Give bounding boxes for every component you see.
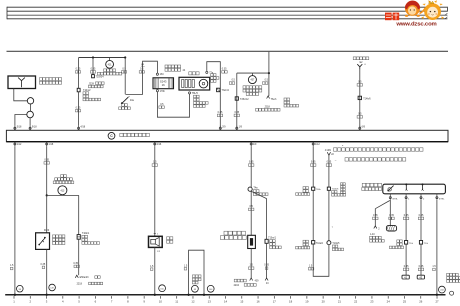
arrow to airbag loom bbox=[250, 278, 253, 281]
svg-text:www.dzsc.com: www.dzsc.com bbox=[395, 22, 436, 28]
svg-text:26: 26 bbox=[419, 300, 423, 304]
text right of radio bbox=[211, 74, 216, 77]
svg-text:T10s/5: T10s/5 bbox=[332, 243, 340, 245]
ground bus junction dots bbox=[14, 294, 16, 296]
svg-text:0.35: 0.35 bbox=[234, 111, 239, 114]
radio unit box bbox=[179, 77, 210, 90]
connector T14b/14 text left bbox=[303, 187, 308, 190]
terminal box 43 right bbox=[417, 275, 424, 279]
svg-text:2218: 2218 bbox=[77, 283, 83, 286]
svg-text:6/T8L: 6/T8L bbox=[439, 198, 445, 200]
svg-text:11: 11 bbox=[175, 300, 178, 304]
svg-text:T8L/5: T8L/5 bbox=[192, 92, 199, 95]
svg-text:20: 20 bbox=[322, 300, 326, 304]
svg-text:T14h/6: T14h/6 bbox=[363, 97, 371, 100]
hood switch label text bbox=[53, 235, 65, 238]
watermark red characters bbox=[385, 13, 399, 21]
door handle switch label bbox=[362, 183, 381, 187]
airbag connector box bbox=[248, 235, 256, 248]
wire col328 mid bbox=[328, 190, 330, 241]
connector T10s/5 bbox=[327, 241, 331, 245]
pin 2/16 below unit bbox=[154, 142, 156, 147]
wire antenna left lead bbox=[14, 89, 27, 101]
ground strap text bbox=[192, 275, 201, 278]
svg-text:E50a/23: E50a/23 bbox=[80, 276, 90, 279]
svg-text:0.35: 0.35 bbox=[373, 214, 378, 217]
svg-text:0.35: 0.35 bbox=[218, 111, 223, 114]
pin 1/12 below unit bbox=[14, 142, 16, 147]
ground strap bridge bbox=[189, 250, 204, 295]
alarm horn H12 box bbox=[149, 236, 163, 247]
antenna unit R47 box bbox=[8, 76, 36, 89]
circled C designator bbox=[108, 132, 115, 139]
horn pin 1 bbox=[154, 232, 156, 234]
watermark mascot 2 bbox=[421, 0, 444, 20]
svg-text:T10k/1: T10k/1 bbox=[82, 232, 90, 235]
svg-text:0.35: 0.35 bbox=[404, 214, 409, 217]
svg-text:13: 13 bbox=[208, 300, 212, 304]
antenna unit label text bbox=[40, 78, 62, 81]
arrow to instrument cluster bbox=[267, 96, 270, 99]
connection circle E413 bbox=[58, 186, 67, 195]
connector T10i/34 bbox=[92, 75, 95, 78]
svg-text:T32c/4: T32c/4 bbox=[222, 89, 230, 92]
separator line bbox=[7, 50, 449, 52]
svg-text:15: 15 bbox=[240, 300, 244, 304]
wire col155 upper bbox=[154, 146, 156, 236]
svg-text:J139: J139 bbox=[325, 148, 332, 152]
svg-text:0.35: 0.35 bbox=[419, 265, 424, 268]
svg-text:0.35: 0.35 bbox=[404, 265, 409, 268]
wire col78 lower to pin 4/18 bbox=[78, 92, 80, 126]
pin 6/9 above unit bbox=[359, 126, 361, 131]
svg-text:1/12: 1/12 bbox=[17, 143, 22, 146]
wire col46 upper bbox=[46, 146, 48, 195]
ground circle 150 bbox=[159, 285, 166, 292]
svg-text:9/18: 9/18 bbox=[32, 126, 37, 129]
wire col406 lower bbox=[405, 244, 407, 275]
radio bottom pin T8L/5 bbox=[188, 92, 190, 94]
svg-text:2204: 2204 bbox=[234, 284, 240, 287]
pin 9/18 above unit bbox=[29, 126, 31, 131]
ground circle 244 bbox=[439, 286, 446, 293]
antenna symbol bbox=[21, 81, 23, 88]
alarm warning lamp label bbox=[353, 57, 369, 60]
connection circle 2 bbox=[27, 111, 34, 118]
svg-text:14: 14 bbox=[224, 300, 228, 304]
connector T32c/4 bbox=[217, 88, 220, 92]
wire col269 to J218 bbox=[268, 73, 270, 96]
watermark mascot 1 bbox=[405, 1, 420, 17]
ground connection text right bbox=[447, 273, 459, 276]
svg-text:1-40: 1-40 bbox=[370, 234, 375, 236]
wire col313 upper bbox=[312, 146, 314, 187]
power bus bar 30 bbox=[7, 6, 447, 8]
hazard switch circle 437 bbox=[251, 73, 253, 76]
ground circle 146 bbox=[207, 285, 214, 292]
junction dot rail-431 bbox=[92, 56, 94, 58]
wire col46 below switch bbox=[46, 249, 48, 294]
connection circle E413 text bbox=[61, 175, 67, 178]
arrow col375 end bbox=[374, 226, 377, 229]
wire riser to separator bbox=[268, 52, 270, 73]
wire col421 lower bbox=[420, 244, 422, 275]
top rail node B bbox=[237, 72, 269, 74]
wire col251 upper bbox=[250, 146, 252, 187]
connector T10m/1 bbox=[265, 239, 268, 243]
svg-text:J218: J218 bbox=[264, 105, 270, 108]
svg-text:0.35: 0.35 bbox=[73, 262, 78, 265]
connector T14b/5 bbox=[327, 187, 330, 190]
connection circle 431 bbox=[109, 58, 111, 61]
switch contact N2 bbox=[422, 183, 424, 185]
fuse S243 top pin 163 bbox=[156, 73, 158, 75]
svg-text:0.35: 0.35 bbox=[419, 214, 424, 217]
wire col375 bbox=[374, 209, 376, 226]
wire col266 bbox=[266, 199, 268, 240]
junction dot col46 branch bbox=[46, 194, 48, 196]
svg-text:24: 24 bbox=[387, 300, 391, 304]
svg-text:T14b: T14b bbox=[316, 189, 322, 191]
wire col251 lower bbox=[250, 249, 252, 278]
pin 4/9 below unit bbox=[250, 142, 252, 147]
power bus bar X bbox=[7, 14, 447, 16]
ignition switch contact bbox=[126, 94, 143, 96]
fuse S243 box bbox=[153, 78, 174, 89]
svg-text:10: 10 bbox=[159, 300, 163, 304]
wire fuse to radio bbox=[157, 92, 189, 117]
pin 2/9 above unit bbox=[219, 126, 221, 131]
arrow to E50a/23 bbox=[75, 275, 78, 278]
pin 4/18 above unit bbox=[78, 126, 80, 131]
wire radio riser to col220 bbox=[207, 62, 221, 128]
svg-text:T25c/12: T25c/12 bbox=[240, 98, 249, 101]
watermark swoosh bbox=[420, 8, 426, 14]
svg-text:17: 17 bbox=[273, 300, 277, 304]
svg-text:0.35: 0.35 bbox=[264, 264, 269, 267]
wire col421 bbox=[420, 200, 422, 241]
svg-text:22: 22 bbox=[354, 300, 358, 304]
wire diagonal pin1 to col375 bbox=[375, 201, 390, 209]
radio pin text block bbox=[194, 95, 200, 98]
svg-text:0.35: 0.35 bbox=[44, 158, 49, 161]
svg-text:T10i: T10i bbox=[409, 243, 414, 245]
power bus bar 31 bbox=[7, 18, 447, 20]
wishbone Y22 on col328 bbox=[327, 152, 329, 155]
svg-text:2/16: 2/16 bbox=[157, 143, 162, 146]
wire between connection circles bbox=[30, 104, 32, 111]
connection circle 1 bbox=[27, 98, 33, 104]
svg-text:1/18: 1/18 bbox=[49, 143, 54, 146]
svg-text:0.35: 0.35 bbox=[76, 106, 81, 109]
pin 5/18 above unit bbox=[14, 126, 16, 131]
hood alarm switch box bbox=[36, 233, 50, 250]
svg-text:18: 18 bbox=[289, 300, 293, 304]
alarm horn label bbox=[167, 237, 173, 240]
wire col406 bbox=[405, 200, 407, 241]
ground circle 98 bbox=[17, 285, 24, 292]
airbag harness text bbox=[224, 231, 245, 235]
control unit label bbox=[120, 133, 150, 136]
switch box pins bbox=[389, 194, 391, 200]
pin 1/9 above unit bbox=[236, 126, 238, 131]
terminal 15a tick bbox=[141, 63, 144, 65]
fuse S243 bottom pin 170b bbox=[156, 90, 158, 92]
airbag loom text bbox=[234, 279, 246, 282]
ground circle 149 bbox=[49, 284, 56, 291]
svg-text:T10n/2: T10n/2 bbox=[83, 89, 91, 92]
connector T4a bbox=[248, 187, 252, 191]
connector T10k/1 bbox=[77, 235, 80, 240]
svg-text:21: 21 bbox=[338, 300, 342, 304]
alarm lamp symbol bbox=[359, 67, 361, 70]
connector T10i/26 bbox=[405, 241, 408, 245]
wire split diagonal to col266 bbox=[251, 191, 267, 199]
switch contact N1 bbox=[405, 183, 407, 185]
svg-text:25: 25 bbox=[403, 300, 407, 304]
svg-text:4/18: 4/18 bbox=[80, 126, 85, 129]
svg-text:0.35: 0.35 bbox=[311, 161, 316, 164]
door handle switch F133 box bbox=[383, 184, 446, 194]
terminal box 43 left bbox=[402, 275, 409, 279]
ground bus bar bbox=[5, 294, 445, 296]
connector T14h/6 bbox=[358, 96, 361, 99]
switch symbol inside bbox=[387, 190, 389, 192]
wire circle2 to pin 5/18 bbox=[15, 115, 27, 126]
svg-text:5/18: 5/18 bbox=[17, 126, 22, 129]
door handle switch text left small bbox=[341, 183, 346, 185]
svg-text:F120: F120 bbox=[44, 230, 50, 232]
svg-text:170b: 170b bbox=[160, 91, 166, 93]
ignition switch label bbox=[122, 104, 128, 107]
radio label bbox=[189, 72, 199, 75]
svg-text:23: 23 bbox=[370, 300, 374, 304]
pin 4/12 below unit bbox=[312, 142, 314, 147]
track scale ticks and numbers bbox=[13, 296, 439, 304]
svg-text:T4a: T4a bbox=[253, 187, 258, 190]
label connection 30a bbox=[104, 69, 116, 72]
radio top pin 77a bbox=[206, 71, 208, 73]
ground circle 43 bbox=[192, 285, 199, 292]
svg-text:T6c/1: T6c/1 bbox=[271, 98, 278, 101]
instrument cluster connector text bbox=[284, 98, 290, 101]
wire col46 to hood switch bbox=[46, 195, 48, 232]
wire col437 to ground bbox=[436, 200, 438, 295]
wire col358 upper bbox=[359, 70, 361, 128]
wire col78 lower section bbox=[78, 195, 80, 234]
connector T10a/2 bbox=[312, 241, 315, 244]
connector text left of T10i/26 bbox=[397, 240, 402, 243]
bus bar left bracket bbox=[6, 7, 8, 20]
svg-text:T10m/1: T10m/1 bbox=[268, 238, 277, 240]
wire circle2 bottom to pin 9/18 bbox=[29, 118, 31, 126]
connector T10n/2 bbox=[77, 88, 80, 92]
wire col78 upper bbox=[78, 58, 80, 89]
svg-text:0.35: 0.35 bbox=[222, 68, 227, 71]
hazard switch text bbox=[243, 86, 262, 89]
connector T10a/2 text left bbox=[303, 240, 308, 243]
wire col125 to ignition switch bbox=[124, 58, 126, 95]
pin 1/18 below unit bbox=[46, 142, 48, 147]
wire col390 to sleeve bbox=[389, 200, 391, 226]
connector T10i/27 bbox=[419, 241, 422, 245]
wire col78 to E50a bbox=[78, 239, 80, 275]
connector sleeve hatched bbox=[386, 226, 396, 231]
central locking control unit J?V56 box bbox=[6, 130, 448, 141]
svg-text:0.35: 0.35 bbox=[249, 161, 254, 164]
fuse holder label bbox=[165, 65, 181, 68]
svg-text:←: ← bbox=[334, 158, 337, 162]
svg-text:T10i/34: T10i/34 bbox=[96, 76, 105, 79]
wire col237 bbox=[236, 73, 238, 127]
svg-text:T14b/5: T14b/5 bbox=[332, 188, 340, 190]
top rail node A bbox=[79, 57, 126, 59]
bus bar right end ticks bbox=[446, 7, 448, 12]
radio speaker circle bbox=[199, 79, 208, 88]
svg-text:J228: J228 bbox=[89, 82, 95, 85]
wire branch to col78 bbox=[47, 194, 79, 196]
bus right end circle bbox=[450, 291, 454, 295]
svg-text:16: 16 bbox=[162, 83, 166, 87]
wire col266 lower bbox=[266, 243, 268, 278]
connector T14b/14 bbox=[312, 187, 315, 190]
power bus bar 15 bbox=[7, 10, 447, 12]
svg-text:19: 19 bbox=[305, 300, 309, 304]
wire col142 riser bbox=[143, 61, 158, 94]
svg-text:0.35: 0.35 bbox=[41, 263, 46, 266]
svg-text:3/T8L: 3/T8L bbox=[392, 198, 398, 200]
svg-text:12: 12 bbox=[191, 300, 195, 304]
svg-text:4/12: 4/12 bbox=[315, 143, 320, 146]
svg-text:27: 27 bbox=[435, 300, 439, 304]
wire col155 lower bbox=[154, 247, 156, 294]
svg-text:T10a/2: T10a/2 bbox=[316, 243, 324, 245]
wire col93 stub bbox=[92, 58, 94, 75]
junction dot rail-ignition bbox=[124, 56, 126, 58]
connector T25c/12 bbox=[235, 97, 238, 100]
wire U-link col313-col328 bbox=[313, 244, 329, 276]
junction dot node B bbox=[268, 72, 270, 74]
wire col328 upper bbox=[328, 155, 330, 187]
wire col15 to ground bbox=[14, 146, 16, 294]
wire col313 mid bbox=[312, 190, 314, 240]
arrow col266 end bbox=[265, 278, 268, 281]
svg-text:16: 16 bbox=[256, 300, 260, 304]
svg-text:0.35: 0.35 bbox=[389, 214, 394, 217]
wire col251 mid bbox=[250, 191, 252, 235]
svg-text:T10i: T10i bbox=[424, 243, 429, 245]
